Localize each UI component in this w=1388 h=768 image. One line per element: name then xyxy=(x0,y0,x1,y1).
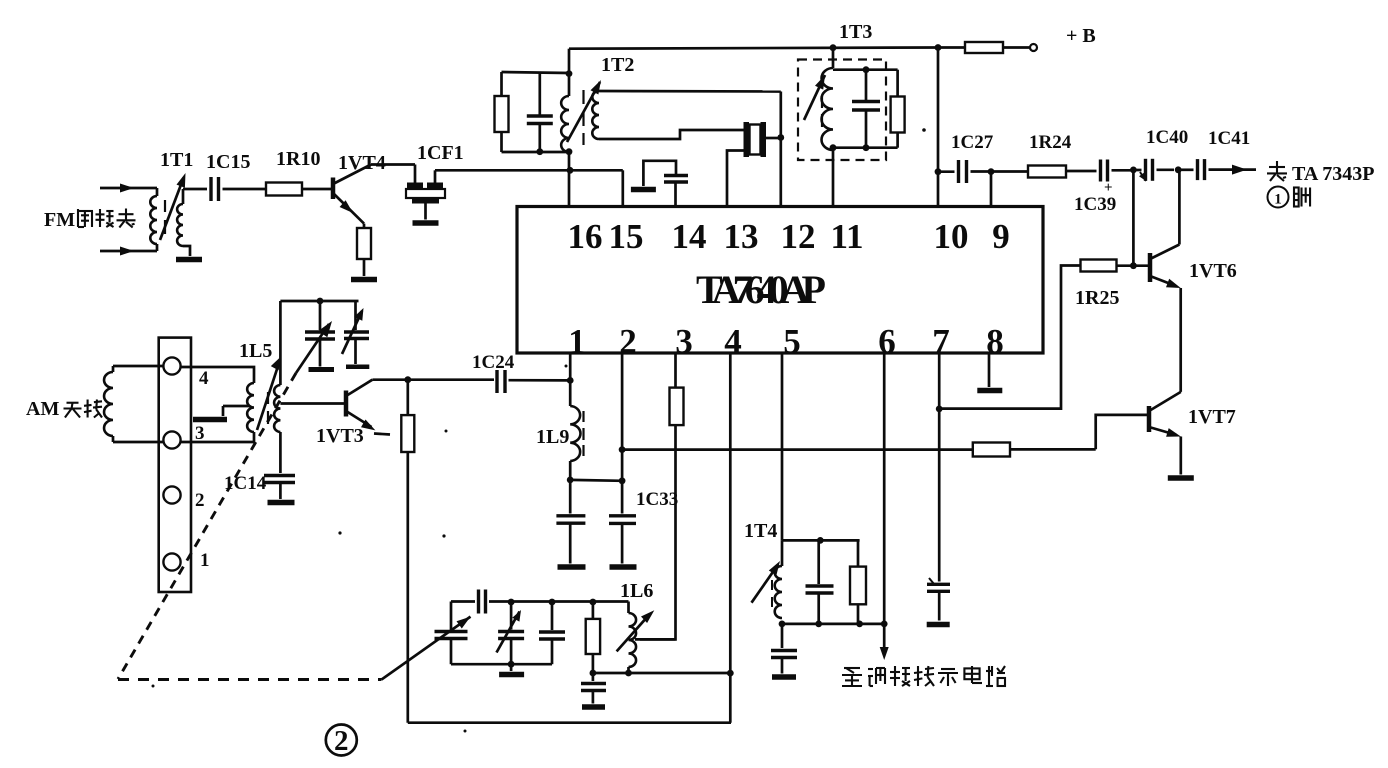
svg-text:1C27: 1C27 xyxy=(951,132,994,153)
svg-text:+ B: + B xyxy=(1066,25,1096,47)
svg-text:1R25: 1R25 xyxy=(1075,287,1119,309)
svg-text:4: 4 xyxy=(724,322,742,361)
svg-text:1L9: 1L9 xyxy=(536,426,569,448)
svg-text:11: 11 xyxy=(830,217,863,256)
svg-text:12: 12 xyxy=(781,217,816,256)
svg-text:1VT4: 1VT4 xyxy=(338,152,386,174)
svg-text:6: 6 xyxy=(878,322,896,361)
svg-text:2: 2 xyxy=(334,725,349,757)
svg-text:4: 4 xyxy=(199,368,209,389)
svg-text:10: 10 xyxy=(934,217,969,256)
svg-text:16: 16 xyxy=(568,217,603,256)
svg-text:2: 2 xyxy=(195,490,205,511)
svg-text:1VT6: 1VT6 xyxy=(1189,260,1237,282)
svg-text:14: 14 xyxy=(672,217,707,256)
svg-text:1CF1: 1CF1 xyxy=(417,142,464,164)
svg-text:TA 7343P: TA 7343P xyxy=(1292,163,1374,185)
svg-text:1R24: 1R24 xyxy=(1029,132,1072,153)
svg-text:1: 1 xyxy=(200,550,210,571)
svg-text:1C24: 1C24 xyxy=(472,352,515,373)
svg-text:1T4: 1T4 xyxy=(744,520,777,542)
svg-text:7: 7 xyxy=(932,322,950,361)
svg-text:15: 15 xyxy=(609,217,644,256)
svg-text:9: 9 xyxy=(992,217,1010,256)
svg-text:1R10: 1R10 xyxy=(276,148,320,170)
svg-text:1: 1 xyxy=(1274,192,1282,208)
svg-text:AM: AM xyxy=(26,398,59,420)
svg-text:1C41: 1C41 xyxy=(1208,128,1250,149)
svg-text:13: 13 xyxy=(724,217,759,256)
svg-text:1C39: 1C39 xyxy=(1074,194,1116,215)
svg-text:FM: FM xyxy=(44,209,75,231)
svg-text:1T1: 1T1 xyxy=(160,149,193,171)
svg-text:1T2: 1T2 xyxy=(601,54,634,76)
svg-text:TA7640AP: TA7640AP xyxy=(696,267,825,312)
svg-text:5: 5 xyxy=(783,322,801,361)
svg-text:1C15: 1C15 xyxy=(206,151,250,173)
svg-text:1L6: 1L6 xyxy=(620,580,653,602)
svg-text:1C33: 1C33 xyxy=(636,489,678,510)
svg-text:1L5: 1L5 xyxy=(239,340,272,362)
svg-text:3: 3 xyxy=(675,322,693,361)
svg-text:1C40: 1C40 xyxy=(1146,127,1188,148)
svg-text:1VT7: 1VT7 xyxy=(1188,406,1236,428)
svg-text:1T3: 1T3 xyxy=(839,21,872,43)
svg-text:1VT3: 1VT3 xyxy=(316,425,364,447)
